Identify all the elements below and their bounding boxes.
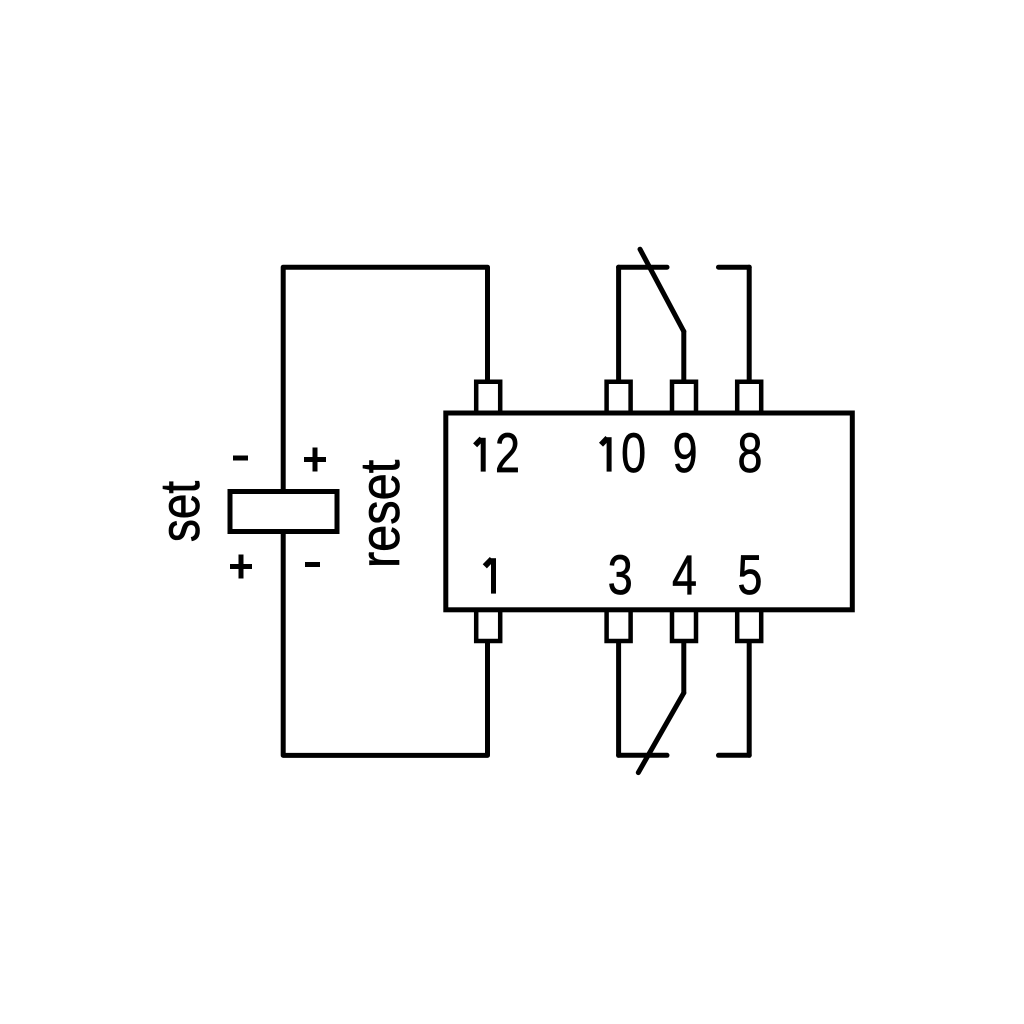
pin label 10: [601, 421, 646, 484]
pin 3 terminal: [607, 610, 631, 642]
pin 12 terminal: [476, 382, 500, 414]
pin label 12: [475, 421, 520, 484]
wire: pin 3 to fixed contact bar: [616, 643, 621, 755]
pin 10 terminal: [607, 382, 631, 414]
polarity minus (reset, lower right of coil): [305, 562, 320, 567]
polarity minus (set, upper left of coil): [233, 456, 248, 461]
svg-text:set: set: [148, 481, 210, 542]
wire: pin 10 to fixed contact bar: [616, 267, 621, 379]
wire: set coil top to pin 12 (left vertical, top horizontal, right drop): [283, 267, 487, 530]
fixed contact bar of pin 10 (top): [619, 265, 667, 270]
pin 9 terminal: [672, 382, 696, 414]
svg-text:4: 4: [672, 543, 697, 606]
svg-text:5: 5: [738, 543, 763, 606]
pin label 1: [485, 558, 494, 593]
svg-text:9: 9: [673, 421, 698, 484]
relay body U1: [446, 413, 853, 610]
pin 4 terminal: [672, 610, 696, 642]
wire: pin 8 to fixed contact bracket: [747, 267, 752, 379]
polarity plus (reset, upper right of coil): [304, 448, 326, 472]
wire: pin 9 to movable arm: [681, 331, 686, 379]
wire: set coil bottom to pin 1 (left vertical, bottom horizontal, right rise): [283, 493, 487, 755]
polarity plus (set, lower left of coil): [230, 555, 252, 579]
fixed contact bracket of pin 8 (top): [719, 265, 750, 270]
svg-text:0: 0: [621, 421, 646, 484]
coil K1 (set/reset latching coil): [230, 492, 337, 532]
wire: pin 5 to fixed contact bracket: [747, 643, 752, 755]
wire: pin 4 to movable arm: [681, 643, 686, 693]
svg-text:2: 2: [495, 421, 520, 484]
movable contact arm (pin 4, bottom changeover): [638, 693, 684, 773]
pin 5 terminal: [737, 610, 761, 642]
svg-text:reset: reset: [349, 459, 412, 568]
fixed contact bar of pin 3 (bottom): [619, 753, 667, 758]
pin 1 terminal: [476, 610, 500, 642]
svg-text:8: 8: [737, 421, 762, 484]
pin 8 terminal: [737, 382, 761, 414]
movable contact arm (pin 9, top changeover): [640, 249, 684, 331]
fixed contact bracket of pin 5 (bottom): [719, 753, 750, 758]
svg-text:3: 3: [608, 543, 633, 606]
